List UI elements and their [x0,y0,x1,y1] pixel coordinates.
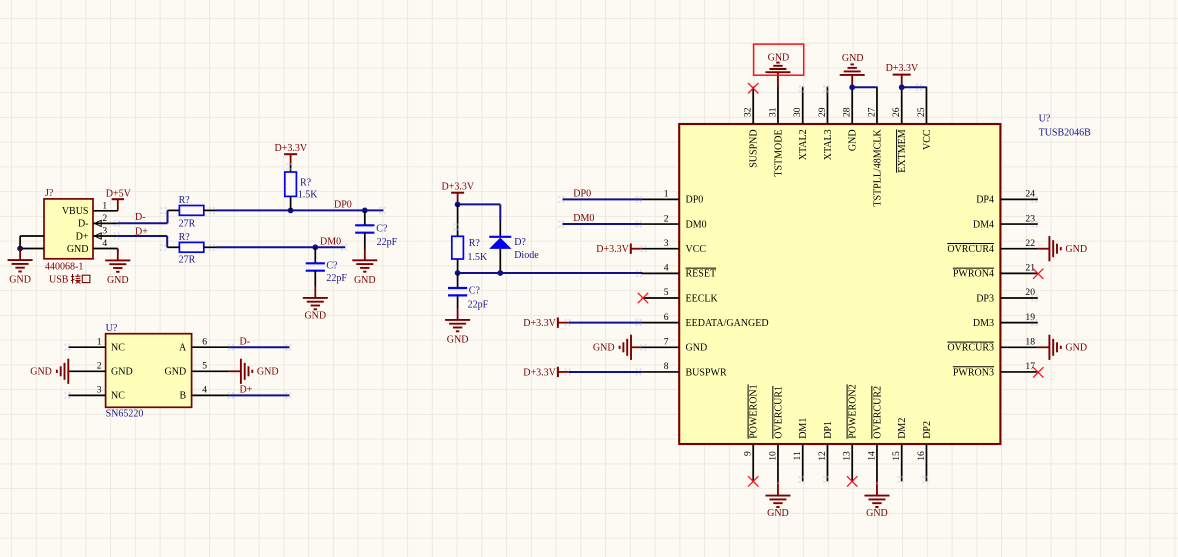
ground at pin 7 [593,335,642,360]
svg-text:DP0: DP0 [334,200,352,211]
power port D+3.3V mid [442,181,475,204]
svg-text:C?: C? [376,224,388,235]
svg-text:DM2: DM2 [897,418,908,439]
power port D+5V [106,188,132,210]
svg-text:18: 18 [1025,337,1035,348]
wire J? shield left [20,236,44,249]
svg-text:GND: GND [165,367,187,378]
svg-text:DP4: DP4 [976,195,994,206]
net label DM0 [320,237,341,248]
net label D- [135,212,146,223]
svg-text:R?: R? [179,195,191,206]
svg-text:27R: 27R [179,255,196,266]
resistor R? 1.5K mid [452,204,488,273]
net label D+ [135,226,148,237]
svg-text:6: 6 [202,336,207,347]
ic U? left pins 1-8 [642,189,769,379]
svg-text:NC: NC [111,343,125,354]
power port D+3.3V at pin 26 [886,63,919,87]
ground at pin 14 [864,481,889,519]
svg-text:EXTMEM: EXTMEM [897,129,908,172]
no-erc cross at pin 21 PWRON4 [1033,269,1043,279]
connector J? pins 1-4 [93,200,118,249]
svg-text:2: 2 [102,213,107,224]
no-erc cross at pin 32 SUSPND [748,83,758,93]
svg-text:17: 17 [1025,361,1035,372]
svg-text:22pF: 22pF [326,273,347,284]
svg-text:DM0: DM0 [573,213,594,224]
wire pin 8 to power [569,371,642,373]
svg-text:VCC: VCC [686,244,707,255]
svg-text:1: 1 [97,336,102,347]
svg-text:DM4: DM4 [973,219,994,230]
svg-text:3: 3 [97,385,102,396]
wire DM0 to pin 2 [563,223,642,225]
svg-text:DM1: DM1 [798,418,809,439]
resistor R? 27R lower [167,232,216,266]
svg-text:GND: GND [1065,343,1087,354]
capacitor C? 22pF on DP0 [355,210,397,249]
svg-text:VBUS: VBUS [62,206,89,217]
no-erc cross at pin 13 [847,476,857,486]
svg-text:25: 25 [916,107,927,117]
svg-text:GND: GND [67,244,89,255]
net label DM0 at pin 2 [573,213,594,224]
ground at pin 28 GND [840,53,865,88]
net label D+ at SN65220 [240,385,253,396]
svg-text:POWERON2: POWERON2 [848,384,859,438]
svg-text:12: 12 [817,451,828,461]
ground below DM0 cap [303,286,328,321]
resistor R? 1.5K pullup [285,165,319,211]
junction at J? left [17,246,23,252]
svg-text:21: 21 [1025,263,1035,274]
svg-text:GND: GND [30,367,52,378]
ic U? SN65220 pins [69,336,230,395]
svg-text:16: 16 [916,451,927,461]
svg-text:3: 3 [102,226,107,237]
svg-text:D-: D- [78,219,89,230]
junction DP0 at R pullup [288,208,294,214]
svg-text:B: B [180,391,187,402]
svg-text:TSTPLL/48MCLK: TSTPLL/48MCLK [872,129,883,207]
svg-text:POWERON1: POWERON1 [749,384,760,438]
pin direction arrows [94,220,101,239]
svg-text:C?: C? [326,260,338,271]
junction under diode [497,270,503,276]
ic U? SN65220 body [106,334,192,408]
svg-text:USB: USB [49,275,69,286]
svg-text:OVERCUR1: OVERCUR1 [773,386,784,439]
svg-text:9: 9 [743,451,754,456]
no-erc cross at pin 9 [748,476,758,486]
svg-text:32: 32 [743,107,754,117]
svg-text:TSTMODE: TSTMODE [773,129,784,176]
junction DP0 at C [362,208,368,214]
ground at pin 10 [765,481,790,519]
svg-text:D+3.3V: D+3.3V [275,143,308,154]
ground at J? left [8,248,33,285]
svg-text:26: 26 [891,107,902,117]
svg-text:GND: GND [842,53,864,64]
svg-text:D+3.3V: D+3.3V [523,367,556,378]
svg-text:27: 27 [866,107,877,117]
ic U? TUSB2046B body [679,124,1000,444]
svg-text:GND: GND [9,274,31,285]
svg-text:J?: J? [45,188,54,199]
wire pin 26 to pin 25 [902,86,927,88]
comment SN65220 [106,409,144,420]
svg-text:D+3.3V: D+3.3V [886,63,919,74]
svg-text:DP0: DP0 [686,195,704,206]
svg-text:D+3.3V: D+3.3V [523,318,556,329]
svg-text:6: 6 [664,312,669,323]
svg-text:R?: R? [469,238,481,249]
svg-text:C?: C? [469,286,481,297]
wire DM0 net [216,246,345,248]
svg-text:A: A [179,343,187,354]
wire DP0 to pin 1 [563,198,642,200]
junction DM0 at C [312,244,318,250]
svg-text:XTAL2: XTAL2 [798,129,809,160]
connector J? body [44,199,93,259]
svg-text:D+: D+ [135,226,148,237]
junction mid top [455,202,461,208]
svg-text:EECLK: EECLK [686,293,719,304]
designator U? TUSB2046B [1039,114,1051,125]
svg-text:4: 4 [102,238,107,249]
svg-text:22pF: 22pF [468,299,489,310]
ic U? top pins 32-25 [743,87,933,207]
svg-text:DP1: DP1 [823,421,834,439]
error box around ground [754,44,804,75]
svg-text:R?: R? [179,232,191,243]
svg-text:DM0: DM0 [686,219,707,230]
wire D+ net [118,236,167,247]
power port D+3.3V at pin 8 [523,367,569,379]
diode D? [489,221,539,273]
ground at pin 18 OVRCUR3 [1038,335,1087,360]
power port D+3.3V at pin 6 [523,317,569,329]
junction under R mid [455,270,461,276]
svg-text:15: 15 [891,451,902,461]
ground at J? pin 4 [105,249,130,286]
svg-text:OVERCUR2: OVERCUR2 [872,386,883,439]
svg-text:22pF: 22pF [377,237,398,248]
svg-text:XTAL3: XTAL3 [823,129,834,160]
svg-text:28: 28 [842,107,853,117]
ground below DP0 cap [352,249,377,287]
svg-text:23: 23 [1025,213,1035,224]
wire D+ at SN65220 [229,394,289,396]
svg-text:5: 5 [202,361,207,372]
comment USB interface label [49,274,90,286]
svg-text:Diode: Diode [514,250,539,261]
svg-text:GND: GND [111,367,133,378]
svg-text:SN65220: SN65220 [106,409,144,420]
ic U? right pins 24-17 [947,189,1037,379]
svg-text:TUSB2046B: TUSB2046B [1039,128,1092,139]
junction at pin 28 [849,84,855,90]
svg-text:D+3.3V: D+3.3V [442,181,475,192]
no-erc cross at pin 5 EECLK [638,293,648,303]
ground at SN65220 pin 2 [30,359,68,384]
svg-text:EEDATA/GANGED: EEDATA/GANGED [686,318,769,329]
svg-text:OVRCUR3: OVRCUR3 [947,343,994,354]
svg-text:D+: D+ [76,231,89,242]
svg-text:BUSPWR: BUSPWR [686,367,727,378]
svg-text:DM3: DM3 [973,318,994,329]
svg-text:U?: U? [1039,114,1051,125]
svg-text:2: 2 [664,213,669,224]
svg-text:5: 5 [664,287,669,298]
snap markers [64,84,1037,483]
svg-text:440068-1: 440068-1 [45,261,83,272]
svg-text:R?: R? [300,177,312,188]
svg-text:DM0: DM0 [320,237,341,248]
ic U? bottom pins 9-16 [743,384,933,481]
power port D+3.3V at VCC pin 3 [596,244,642,256]
svg-text:PWRON4: PWRON4 [953,269,994,280]
svg-text:24: 24 [1025,189,1035,200]
wire RESET net [458,272,643,274]
svg-text:1.5K: 1.5K [468,252,489,263]
no-erc cross at pin 17 PWRON3 [1033,367,1043,377]
comment 440068-1 [45,261,83,272]
svg-text:DP3: DP3 [976,293,994,304]
svg-text:D+: D+ [240,385,253,396]
net label DP0 at pin 1 [573,189,591,200]
svg-text:4: 4 [202,385,207,396]
svg-text:GND: GND [848,129,859,151]
ground at SN65220 pin 5 [229,359,278,384]
designator J? [45,188,54,199]
svg-text:D+3.3V: D+3.3V [596,244,629,255]
svg-text:GND: GND [593,343,615,354]
wire DP0 net [216,209,384,211]
ground at pin 31 TSTMODE [765,53,790,88]
power port D+3.3V at pullup [275,143,308,165]
svg-text:GND: GND [304,310,326,321]
svg-text:14: 14 [866,451,877,461]
wire mid top [458,204,501,221]
wire D- at SN65220 [229,346,289,348]
svg-text:31: 31 [767,107,778,117]
svg-text:GND: GND [447,334,469,345]
svg-text:10: 10 [767,451,778,461]
svg-text:30: 30 [792,107,803,117]
svg-text:1: 1 [102,200,107,211]
svg-text:GND: GND [354,275,376,286]
svg-text:7: 7 [664,337,669,348]
svg-text:D-: D- [240,336,251,347]
svg-text:OVRCUR4: OVRCUR4 [947,244,994,255]
wire pin 6 to power [569,322,642,324]
svg-text:19: 19 [1025,312,1035,323]
svg-text:8: 8 [664,361,669,372]
svg-text:D+5V: D+5V [106,188,132,199]
comment TUSB2046B [1039,128,1092,139]
net label DP0 [334,200,352,211]
svg-text:1: 1 [664,189,669,200]
resistor R? 27R upper [168,195,217,229]
svg-text:VCC: VCC [922,129,933,150]
ground at pin 22 OVRCUR4 [1038,236,1087,261]
svg-text:PWRON3: PWRON3 [953,367,994,378]
svg-text:GND: GND [107,275,129,286]
svg-text:D?: D? [514,237,526,248]
svg-text:1.5K: 1.5K [298,190,319,201]
svg-text:3: 3 [664,238,669,249]
wire pin 28 to pin 27 [852,86,877,88]
junction at pin 26 [899,84,905,90]
svg-text:GND: GND [257,367,279,378]
svg-text:GND: GND [768,53,790,64]
svg-text:DP2: DP2 [922,421,933,439]
svg-text:GND: GND [767,508,789,519]
svg-text:NC: NC [111,391,125,402]
svg-text:13: 13 [842,451,853,461]
capacitor C? 22pF mid [448,273,489,310]
svg-text:27R: 27R [179,218,196,229]
ground below mid cap [445,308,470,345]
svg-text:20: 20 [1025,287,1035,298]
svg-text:GND: GND [866,508,888,519]
designator U? SN65220 [106,323,118,334]
svg-text:11: 11 [792,451,803,460]
svg-text:GND: GND [1065,244,1087,255]
svg-text:4: 4 [664,263,669,274]
net label D- at SN65220 [240,336,251,347]
svg-text:2: 2 [97,361,102,372]
svg-text:D-: D- [135,212,146,223]
wire D- net [118,210,168,223]
svg-text:SUSPND: SUSPND [749,129,760,167]
svg-text:29: 29 [817,107,828,117]
svg-text:GND: GND [686,343,708,354]
svg-text:DP0: DP0 [573,189,591,200]
capacitor C? 22pF on DM0 [306,247,348,286]
svg-text:22: 22 [1025,238,1035,249]
svg-text:U?: U? [106,323,118,334]
svg-text:RESET: RESET [686,269,717,280]
